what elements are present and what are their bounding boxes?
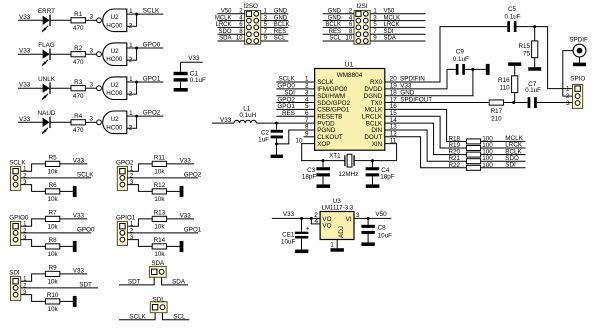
svg-text:SCL: SCL xyxy=(329,36,341,42)
I2SO pin 3 GND xyxy=(261,20,289,22)
net label GPO1 (pin2 wire) xyxy=(128,232,199,234)
svg-text:GPO0: GPO0 xyxy=(143,42,161,49)
svg-text:1: 1 xyxy=(23,167,27,173)
svg-text:C2: C2 xyxy=(261,130,270,137)
svg-text:0.1uF: 0.1uF xyxy=(525,87,541,94)
net label SCLK (jumper left) xyxy=(119,313,155,320)
svg-text:I2SI: I2SI xyxy=(356,3,367,10)
svg-text:V33: V33 xyxy=(73,213,85,220)
svg-text:V33: V33 xyxy=(188,55,200,62)
svg-text:HC00: HC00 xyxy=(106,124,123,131)
U1 pin 5 net label GPO1 xyxy=(276,108,314,110)
wire pin1 to R9 xyxy=(21,274,46,281)
svg-text:SDT: SDT xyxy=(128,278,141,285)
svg-text:0.1uF: 0.1uF xyxy=(453,56,469,63)
net label SDT (pin2 wire) xyxy=(21,287,98,289)
wire R12 to ground xyxy=(167,190,180,192)
U1 pin 3 net label SDI xyxy=(276,95,314,97)
ground (R10) xyxy=(73,296,77,307)
wire L1 to U1 pin 7 PVDD xyxy=(256,122,314,124)
svg-text:U2: U2 xyxy=(111,14,120,21)
ground (C9) xyxy=(486,64,490,75)
svg-text:VO: VO xyxy=(322,223,331,230)
svg-text:10uF: 10uF xyxy=(378,233,393,240)
svg-text:10: 10 xyxy=(236,36,243,42)
svg-text:R9: R9 xyxy=(49,265,58,272)
I2SO pin 6 LRCK xyxy=(218,26,245,28)
wire node to R15 xyxy=(534,27,536,41)
resistor R13 10k xyxy=(152,216,166,221)
I2SO pin 10 SDA xyxy=(218,40,245,42)
svg-text:HC00: HC00 xyxy=(106,22,123,29)
svg-text:10k: 10k xyxy=(154,196,165,203)
svg-text:3: 3 xyxy=(566,100,570,107)
resistor R8 10k xyxy=(45,244,59,249)
svg-text:RES: RES xyxy=(282,110,295,117)
nand gate U2 (row 2) HC00 xyxy=(103,43,127,66)
svg-text:C8: C8 xyxy=(378,224,387,231)
svg-text:18pF: 18pF xyxy=(302,173,317,180)
resistor R7 10k xyxy=(45,216,59,221)
svg-text:SPDIFOUT: SPDIFOUT xyxy=(400,96,432,103)
svg-text:10k: 10k xyxy=(48,279,59,286)
ground (C2) xyxy=(271,155,283,158)
svg-text:RES: RES xyxy=(274,29,286,35)
wire CE1 to ground xyxy=(301,239,303,250)
svg-text:1: 1 xyxy=(129,42,133,49)
svg-text:V33: V33 xyxy=(19,82,31,89)
svg-text:V33: V33 xyxy=(283,211,295,218)
wire R2 to gate pin 3 xyxy=(85,53,96,55)
wire XIN node to C4 xyxy=(372,161,374,168)
svg-text:470: 470 xyxy=(73,93,84,100)
svg-text:SPIO: SPIO xyxy=(570,75,585,82)
wire pin1 to R13 xyxy=(128,219,153,226)
svg-text:1: 1 xyxy=(129,76,133,83)
junction (V33/CE1) xyxy=(300,217,303,220)
ground (R8) xyxy=(73,241,77,252)
net label SDT (jumper left) xyxy=(119,277,154,285)
gate pin 2 wire (row 3) xyxy=(127,82,137,94)
svg-text:SDO: SDO xyxy=(218,29,231,35)
svg-text:GPIO1: GPIO1 xyxy=(116,214,136,221)
capacitor CE1 10uF (electrolytic) xyxy=(301,218,303,231)
svg-text:GPIO0: GPIO0 xyxy=(9,214,29,221)
svg-text:11: 11 xyxy=(390,137,397,144)
svg-text:SDA: SDA xyxy=(219,36,231,42)
ground (U3 ADJ) xyxy=(331,248,344,252)
capacitor C4 18pF xyxy=(366,167,380,170)
svg-text:1: 1 xyxy=(130,167,134,173)
svg-text:CE1: CE1 xyxy=(282,232,295,239)
ground (R12) xyxy=(180,186,184,197)
nand gate U2 (row 4) HC00 xyxy=(103,111,127,134)
ground (R6) xyxy=(73,186,77,197)
resistor R12 10k xyxy=(152,189,166,194)
svg-text:2: 2 xyxy=(130,228,134,234)
I2SO pin 8 SDO xyxy=(218,33,245,35)
inductor L1 0,1uH xyxy=(234,120,256,123)
svg-text:2: 2 xyxy=(129,91,133,98)
I2SI pin 1 V50 xyxy=(370,13,425,15)
U1 pin 17 TX0 net SPDIFOUT xyxy=(385,102,489,104)
wire R17 to C7 xyxy=(504,102,528,104)
net label SDA (jumper right) xyxy=(162,277,188,285)
svg-text:SCLK: SCLK xyxy=(143,8,160,15)
wire C7 to SPIO pin 3 xyxy=(534,102,572,104)
svg-text:10k: 10k xyxy=(48,306,59,313)
U1 pin 13 wire to R21 xyxy=(385,130,467,161)
svg-text:R16: R16 xyxy=(498,77,510,84)
svg-text:SDT: SDT xyxy=(79,281,92,288)
U1 pin 2 net label GPO0 xyxy=(276,88,314,90)
svg-text:SDA: SDA xyxy=(384,36,396,42)
wire LED to R2 xyxy=(50,53,71,55)
svg-text:HC00: HC00 xyxy=(106,56,123,63)
svg-text:75: 75 xyxy=(523,51,531,58)
gate pin 1 wire (row 3) xyxy=(127,81,137,83)
svg-text:ERRT: ERRT xyxy=(38,8,55,15)
resistor R21 100 xyxy=(466,159,480,164)
svg-text:R11: R11 xyxy=(154,155,166,162)
net label GPO0 (pin2 wire) xyxy=(21,232,92,234)
net label SDO (R21 output) xyxy=(481,160,526,162)
wire R16 to ground xyxy=(514,66,516,76)
wire pin3 to R12 xyxy=(128,185,153,192)
svg-text:C5: C5 xyxy=(508,6,517,13)
svg-text:V50: V50 xyxy=(375,211,387,218)
wire R8 to ground xyxy=(60,245,73,247)
resistor R18 100 xyxy=(466,139,480,144)
gate pin 1 wire (row 4) xyxy=(127,115,137,117)
svg-text:10k: 10k xyxy=(48,196,59,203)
ground (SPDIF) xyxy=(573,63,586,67)
junction (PVDD node) xyxy=(275,122,278,125)
ground (R16) xyxy=(508,62,521,66)
I2SO pin 5 BCLK xyxy=(261,26,289,28)
junction (XIN node) xyxy=(371,159,374,162)
I2SI pin 4 GND xyxy=(323,20,354,22)
net label V33 (R7) xyxy=(60,218,88,220)
net label GPO2 (pin2 wire) xyxy=(128,177,199,179)
capacitor C2 1uF xyxy=(271,130,283,133)
svg-text:0.1uF: 0.1uF xyxy=(190,77,206,84)
svg-text:V33: V33 xyxy=(19,116,31,123)
resistor R15 75 xyxy=(532,41,538,58)
U1 pin 4 net label GPO2 xyxy=(276,102,314,104)
svg-text:210: 210 xyxy=(491,115,502,122)
svg-text:U1: U1 xyxy=(345,61,354,68)
svg-text:WM8804: WM8804 xyxy=(337,72,363,79)
svg-text:12MHz: 12MHz xyxy=(338,171,358,178)
wire node to ground xyxy=(276,144,278,155)
net label V33 (R5) xyxy=(60,163,88,165)
svg-text:BCLK: BCLK xyxy=(325,22,341,28)
junction (row 2) xyxy=(135,47,138,50)
svg-text:I2SO: I2SO xyxy=(244,3,258,10)
U1 pin 15 wire to R19 xyxy=(385,116,467,148)
gate pin 2 wire (row 4) xyxy=(127,116,137,128)
capacitor C9 0.1uF xyxy=(456,64,459,75)
svg-text:1: 1 xyxy=(129,8,133,15)
net label SCL (jumper right) xyxy=(163,313,190,320)
svg-text:12: 12 xyxy=(390,131,398,138)
svg-text:SCL: SCL xyxy=(173,313,186,320)
svg-text:R8: R8 xyxy=(49,237,58,244)
wire pin1 to R7 xyxy=(21,219,46,226)
U1 pin 12 wire to R22 xyxy=(385,137,467,168)
U1 pin 16 wire to R18 xyxy=(385,109,467,141)
svg-text:V33: V33 xyxy=(180,158,192,165)
net label V33 (R13) xyxy=(167,218,195,220)
svg-text:SDA: SDA xyxy=(151,260,165,267)
capacitor C8 10uF xyxy=(367,218,369,224)
svg-text:SCLK: SCLK xyxy=(9,159,26,166)
svg-text:BCLK: BCLK xyxy=(274,22,290,28)
svg-text:GPO1: GPO1 xyxy=(184,226,202,233)
svg-text:SCLK: SCLK xyxy=(129,313,146,320)
wire R1 to gate pin 3 xyxy=(85,19,96,21)
svg-text:10: 10 xyxy=(295,137,303,144)
svg-text:3: 3 xyxy=(356,212,360,219)
svg-text:GPO2: GPO2 xyxy=(116,159,134,166)
svg-text:V50: V50 xyxy=(384,9,395,15)
net label LRCK (R19 output) xyxy=(481,147,526,149)
resistor R16 110 xyxy=(514,93,516,103)
net label SDI (R22 output) xyxy=(481,167,526,169)
svg-text:9: 9 xyxy=(305,131,309,138)
svg-text:V33: V33 xyxy=(73,158,85,165)
svg-text:0,1uH: 0,1uH xyxy=(239,112,256,119)
U1 pin 20 RX0 net SPDIFIN xyxy=(385,27,508,82)
svg-text:10k: 10k xyxy=(154,251,165,258)
wire V33 to C1 xyxy=(180,62,182,72)
svg-text:18pF: 18pF xyxy=(380,173,395,180)
svg-text:R22: R22 xyxy=(448,162,460,169)
svg-text:ADJ: ADJ xyxy=(338,226,345,238)
svg-text:MCLK: MCLK xyxy=(215,15,232,21)
I2SO pin 2 V50 xyxy=(218,13,245,15)
svg-text:MCLK: MCLK xyxy=(384,15,401,21)
I2SI pin 7 SDI xyxy=(370,33,425,35)
svg-text:SCL: SCL xyxy=(274,36,286,42)
U1 pin 1 net label SCLK xyxy=(276,81,314,83)
svg-text:10: 10 xyxy=(346,36,353,42)
svg-text:XT1: XT1 xyxy=(329,152,341,159)
svg-text:V33: V33 xyxy=(19,14,31,21)
svg-text:R13: R13 xyxy=(154,210,166,217)
junction (C9/DGND node) xyxy=(471,68,474,71)
U1 pin 19 DVDD net V33 xyxy=(385,69,456,88)
resistor R14 10k xyxy=(152,244,166,249)
junction (PGND node) xyxy=(275,142,278,145)
svg-text:U2: U2 xyxy=(111,48,120,55)
wire U1 pin 8 PGND to node xyxy=(277,130,315,144)
svg-text:2: 2 xyxy=(23,173,27,179)
svg-text:2: 2 xyxy=(129,57,133,64)
U3 ADJ pin 1 to ground xyxy=(336,240,338,249)
wire pin3 to R6 xyxy=(21,185,46,192)
svg-text:C9: C9 xyxy=(456,48,465,55)
svg-text:R14: R14 xyxy=(154,237,166,244)
U1 pin 11 XIN wire to crystal xyxy=(354,144,397,161)
wire XOP node to C3 xyxy=(322,161,324,168)
net label GPO1 (gate output row 3) xyxy=(137,81,164,83)
wire C5 to SPIO pin 1 xyxy=(514,27,573,89)
svg-text:NAUD: NAUD xyxy=(38,110,56,117)
svg-text:GND: GND xyxy=(328,9,342,15)
resistor R11 10k xyxy=(152,161,166,166)
svg-text:RES: RES xyxy=(329,29,341,35)
I2SO pin 9 SCL xyxy=(261,40,289,42)
U3 pin 4 wire xyxy=(311,218,320,224)
svg-text:FLAG: FLAG xyxy=(38,42,55,49)
wire pin1 to R11 xyxy=(128,164,153,171)
svg-text:V33: V33 xyxy=(73,268,85,275)
svg-text:GND: GND xyxy=(274,15,288,21)
U1 pin 10 XOP wire to crystal xyxy=(302,144,345,161)
wire SPDIF jack to SPIO pin 2 xyxy=(563,51,573,97)
svg-text:SPDIF: SPDIF xyxy=(569,36,588,43)
svg-text:SDA: SDA xyxy=(172,278,186,285)
I2SI pin 8 RES xyxy=(323,33,354,35)
wire R3 to gate pin 3 xyxy=(85,87,96,89)
wire pin3 to R10 xyxy=(21,295,46,302)
wire C2 to ground node xyxy=(276,138,278,144)
svg-text:2: 2 xyxy=(129,23,133,30)
resistor R6 10k xyxy=(45,189,59,194)
ground (R14) xyxy=(180,241,184,252)
svg-text:VI: VI xyxy=(346,216,352,223)
svg-text:UNLK: UNLK xyxy=(38,76,56,83)
I2SI pin 3 MCLK xyxy=(370,20,425,22)
svg-text:HC00: HC00 xyxy=(106,90,123,97)
wire R10 to ground xyxy=(60,300,73,302)
wire C9 to ground node xyxy=(462,68,486,70)
svg-text:SCLK: SCLK xyxy=(77,171,94,178)
wire R14 to ground xyxy=(167,245,180,247)
svg-text:R1: R1 xyxy=(74,11,83,18)
svg-text:GND: GND xyxy=(274,9,288,15)
svg-text:GPO2: GPO2 xyxy=(184,171,202,178)
net label GPO0 (gate output row 2) xyxy=(137,47,164,49)
svg-text:0.1uF: 0.1uF xyxy=(504,14,520,21)
svg-text:R4: R4 xyxy=(74,113,83,120)
net label SCLK (pin2 wire) xyxy=(21,177,92,179)
svg-text:XOP: XOP xyxy=(317,141,330,148)
net label SCLK (gate output row 1) xyxy=(137,13,164,15)
svg-text:1: 1 xyxy=(23,222,27,228)
svg-text:XIN: XIN xyxy=(372,141,383,148)
wire pin3 to R8 xyxy=(21,240,46,247)
net label V33 (R9) xyxy=(60,273,88,275)
wire C4 to ground xyxy=(372,176,374,184)
svg-text:470: 470 xyxy=(73,127,84,134)
I2SI pin 10 SCL xyxy=(323,40,354,42)
svg-text:U2: U2 xyxy=(111,82,120,89)
svg-text:SDI: SDI xyxy=(9,269,20,276)
gate pin 2 wire (row 1) xyxy=(127,14,137,26)
resistor R17 210 xyxy=(489,100,503,105)
svg-text:1: 1 xyxy=(129,110,133,117)
svg-text:R17: R17 xyxy=(491,108,503,115)
svg-text:GPO2: GPO2 xyxy=(143,110,161,117)
svg-text:3: 3 xyxy=(90,47,94,54)
ground (C4) xyxy=(366,184,380,188)
net label GPO2 (gate output row 4) xyxy=(137,115,164,117)
svg-text:GPO0: GPO0 xyxy=(77,226,95,233)
junction (R17/R16 node) xyxy=(512,101,515,104)
svg-text:LRCK: LRCK xyxy=(215,22,231,28)
junction (V50/C8) xyxy=(367,217,370,220)
net label BCLK (R20 output) xyxy=(481,154,526,156)
gate pin 1 wire (row 1) xyxy=(127,13,137,15)
svg-text:470: 470 xyxy=(73,59,84,66)
capacitor C1 0.1uF xyxy=(174,72,188,75)
wire LED to R4 xyxy=(50,121,71,123)
ground (C3) xyxy=(317,184,331,188)
svg-text:1: 1 xyxy=(130,222,134,228)
net label V33 (R11) xyxy=(167,163,195,165)
svg-text:4: 4 xyxy=(314,218,318,225)
svg-text:1: 1 xyxy=(566,86,570,93)
I2SI pin 2 GND xyxy=(323,13,354,15)
gate pin 2 wire (row 2) xyxy=(127,48,137,60)
svg-text:GPO1: GPO1 xyxy=(143,76,161,83)
ground (CE1) xyxy=(295,250,308,254)
svg-text:R7: R7 xyxy=(49,210,58,217)
junction (row 1) xyxy=(135,13,138,16)
junction (pin4 tap) xyxy=(310,217,313,220)
wire R6 to ground xyxy=(60,190,73,192)
ground (C1) xyxy=(174,88,188,92)
U1 pin 6 net label RES xyxy=(276,115,314,117)
U1 pin 14 wire to R20 xyxy=(385,123,467,155)
wire C8 to ground xyxy=(367,231,369,242)
svg-text:10k: 10k xyxy=(154,224,165,231)
wire R4 to gate pin 3 xyxy=(85,121,96,123)
resistor R5 10k xyxy=(45,161,59,166)
wire pin3 to R14 xyxy=(128,240,153,247)
capacitor C5 0.1uF xyxy=(507,21,510,32)
svg-text:V33: V33 xyxy=(19,48,31,55)
I2SO pin 7 RES xyxy=(261,33,289,35)
resistor R1 470 xyxy=(71,18,85,23)
svg-text:LRCK: LRCK xyxy=(384,22,400,28)
wire LED to R1 xyxy=(50,19,71,21)
net label V50 (U3 output) xyxy=(354,217,391,219)
resistor R22 100 xyxy=(466,165,480,170)
capacitor C7 0.1uF xyxy=(528,97,531,108)
wire pin1 to R5 xyxy=(21,164,46,171)
U1 pin 18 DGND net GND xyxy=(385,69,473,95)
svg-text:R15: R15 xyxy=(518,43,530,50)
svg-text:SDI: SDI xyxy=(505,162,516,169)
resistor R10 10k xyxy=(45,299,59,304)
junction (XOP node) xyxy=(322,159,325,162)
I2SO pin 4 MCLK xyxy=(218,20,245,22)
I2SO pin 1 GND xyxy=(261,13,289,15)
svg-text:470: 470 xyxy=(73,25,84,32)
svg-text:R10: R10 xyxy=(47,292,59,299)
resistor R20 100 xyxy=(466,152,480,157)
resistor R2 470 xyxy=(71,52,85,57)
junction (row 4) xyxy=(135,115,138,118)
svg-text:110: 110 xyxy=(500,85,511,92)
svg-text:10k: 10k xyxy=(154,169,165,176)
svg-text:10k: 10k xyxy=(48,224,59,231)
wire LED to R3 xyxy=(50,87,71,89)
